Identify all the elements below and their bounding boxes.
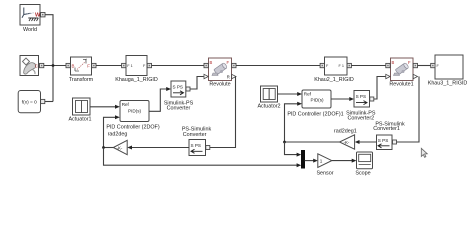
wire Khauga to Revolute: [152, 65, 205, 67]
svg-text:PID Controller (2DOF)1: PID Controller (2DOF)1: [287, 112, 343, 118]
svg-text:Actuator1: Actuator1: [68, 116, 91, 122]
wire World down the left bus: [45, 15, 53, 102]
junction dot left bus: [52, 64, 55, 67]
junction dot rad2deg1: [283, 141, 286, 144]
Khauga_1_RIGID block: [115, 56, 158, 84]
wire Simulink-PS Converter2 to Revolute1 actuation: [374, 77, 386, 100]
svg-text:S PS: S PS: [356, 94, 366, 99]
svg-text:PID(s): PID(s): [311, 98, 324, 103]
svg-text:S PS: S PS: [191, 143, 201, 148]
svg-text:Sensor: Sensor: [316, 171, 333, 177]
wire Khau2 to Revolute1: [351, 65, 385, 67]
svg-text:F: F: [227, 60, 230, 65]
wire Revolute to Khau2: [236, 65, 320, 67]
wire junction down to mux input 1: [285, 142, 298, 155]
svg-text:Ref: Ref: [122, 102, 130, 107]
Revolute1 actuation input port: [386, 74, 390, 78]
svg-text:B: B: [210, 60, 213, 65]
svg-text:F 1: F 1: [339, 64, 345, 68]
Mechanism Configuration block: [20, 56, 39, 76]
svg-text:Converter: Converter: [183, 132, 207, 138]
wire Revolute1 sensor down to PS-Simulink Converter1: [397, 77, 420, 143]
wire Sensor to Scope: [332, 160, 352, 162]
wire mech-config to Transform: [44, 65, 66, 67]
wire solver to bus: [45, 101, 53, 103]
svg-text:Khau2_1_RIGID: Khau2_1_RIGID: [314, 77, 354, 83]
PID Controller (2DOF) block: [106, 101, 160, 131]
svg-text:Scope: Scope: [355, 171, 370, 177]
svg-text:PID(s): PID(s): [128, 109, 141, 114]
svg-text:Converter: Converter: [167, 106, 191, 112]
svg-text:F 1: F 1: [127, 64, 133, 68]
Scope block: [355, 152, 372, 177]
Simulink-PS Converter2 block: [346, 91, 376, 122]
wire rad2deg1 output to junction: [285, 141, 340, 143]
svg-text:Converter2: Converter2: [347, 116, 374, 122]
Mux block: [301, 150, 305, 169]
Actuator2 block: [257, 86, 280, 109]
Transform right port: [92, 63, 96, 67]
svg-text:Revolute1: Revolute1: [389, 82, 413, 88]
PS-Simulink Converter right port: [206, 146, 210, 150]
Revolute1 F port: [413, 63, 417, 67]
Simulink-PS Converter right port: [186, 87, 190, 91]
PS-Simulink Converter1 block: [373, 121, 405, 149]
svg-text:Actuator2: Actuator2: [257, 103, 280, 109]
svg-text:-K-: -K-: [344, 140, 350, 145]
Khau2 left port: [320, 63, 324, 67]
wire feedback into PID lower input: [104, 117, 116, 147]
svg-text:F: F: [87, 64, 90, 69]
svg-text:F: F: [408, 60, 411, 65]
Revolute1 B port: [386, 63, 390, 67]
Khauga left port: [122, 63, 126, 67]
PS-Simulink Converter block: [182, 127, 212, 156]
wire junction down to mux input 2: [104, 148, 298, 166]
svg-text:Khau3_1_RIGID: Khau3_1_RIGID: [428, 80, 468, 86]
Revolute sensor output port: [232, 74, 236, 78]
wire Revolute sensor down to PS-Simulink Converter: [210, 77, 236, 148]
svg-text:S PS: S PS: [173, 84, 183, 89]
Revolute B port: [204, 63, 208, 67]
Khau2_1_RIGID block: [314, 57, 354, 83]
wire rad2deg output to junction: [104, 147, 114, 149]
mouse cursor: [421, 148, 427, 157]
svg-text:Ref: Ref: [304, 91, 312, 96]
Transform left port: [66, 63, 70, 67]
wire Simulink-PS Converter to Revolute actuation: [190, 77, 204, 90]
svg-text:f(x) = 0: f(x) = 0: [22, 100, 37, 106]
PS-Simulink Converter1 right port: [393, 140, 397, 144]
PID Controller (2DOF)1 block: [287, 90, 343, 118]
Revolute1 joint block: [389, 58, 413, 88]
rad2deg1 gain block: [334, 128, 357, 149]
svg-text:Revolute: Revolute: [209, 82, 230, 88]
wire PS-Simulink Converter1 to rad2deg1 gain: [360, 141, 377, 143]
wire Revolute1 to Khau3: [418, 65, 431, 67]
wire feedback into PID1 lower input: [285, 104, 298, 142]
wire Actuator1 to PID: [90, 106, 116, 108]
svg-text:Converter1: Converter1: [373, 126, 400, 132]
Simulink-PS Converter block: [164, 81, 194, 112]
Actuator1 block: [68, 98, 91, 122]
Revolute1 sensor output port: [413, 74, 417, 78]
svg-text:W: W: [35, 12, 41, 18]
svg-text:B: B: [392, 60, 395, 65]
svg-text:PID Controller (2DOF): PID Controller (2DOF): [106, 124, 160, 130]
Simulink-PS Converter2 right port: [370, 97, 374, 101]
Sensor gain block: [316, 154, 333, 177]
svg-text:Khauga_1_RIGID: Khauga_1_RIGID: [115, 77, 158, 83]
Mechanism Configuration port: [40, 63, 44, 67]
wire PID1 output to Simulink-PS Converter2: [331, 98, 350, 100]
wire Actuator2 to PID1: [278, 93, 298, 95]
junction dot rad2deg: [102, 146, 105, 149]
wire Mux to Sensor: [305, 160, 314, 162]
svg-text:Transform: Transform: [69, 77, 94, 83]
Revolute joint block: [209, 58, 232, 88]
Solver Configuration port: [41, 99, 45, 103]
World port: [41, 13, 45, 17]
svg-text:rad2deg: rad2deg: [108, 132, 128, 138]
Solver Configuration block f(x)=0: [18, 91, 40, 113]
svg-text:1: 1: [320, 158, 323, 163]
svg-text:S PS: S PS: [378, 138, 388, 143]
wire PID output to Simulink-PS Converter: [149, 89, 167, 111]
svg-text:rad2deg1: rad2deg1: [334, 128, 357, 134]
Rigid Transform block: [69, 57, 94, 83]
Khauga right port: [147, 63, 151, 67]
World block W: [20, 5, 41, 34]
svg-text:B: B: [72, 64, 75, 69]
Revolute actuation input port: [204, 74, 208, 78]
wire PS-Simulink Converter to rad2deg gain: [132, 147, 189, 149]
svg-text:R: R: [227, 75, 230, 80]
rad2deg gain block: [108, 132, 128, 155]
svg-text:World: World: [23, 27, 37, 33]
svg-text:-K-: -K-: [117, 146, 123, 151]
Khau3_1_RIGID block: [428, 55, 468, 86]
Revolute F port: [232, 63, 236, 67]
Khau3 left port: [431, 63, 435, 67]
Khau2 right port: [347, 63, 351, 67]
wire Transform to Khauga: [96, 65, 122, 67]
